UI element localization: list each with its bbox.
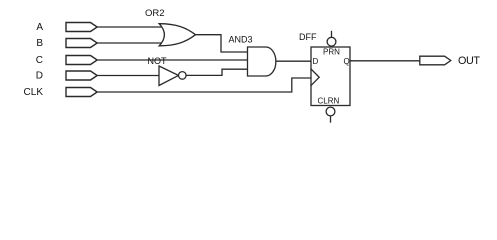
wire A to OR2	[97, 26, 164, 28]
input pin B	[66, 39, 97, 48]
svg-text:A: A	[36, 22, 43, 33]
svg-text:NOT: NOT	[148, 56, 168, 66]
svg-text:CLK: CLK	[24, 87, 44, 98]
input pin D	[66, 71, 97, 80]
and-gate U3 AND3	[248, 47, 276, 76]
svg-text:AND3: AND3	[229, 35, 253, 45]
wire D to NOT	[97, 75, 159, 77]
wire DFF Q output to OUT pin	[350, 60, 420, 62]
svg-text:D: D	[36, 71, 43, 82]
svg-text:OR2: OR2	[145, 8, 165, 19]
svg-text:OUT: OUT	[458, 55, 480, 67]
flip-flop U4 DFF body	[311, 47, 350, 106]
svg-text:CLRN: CLRN	[318, 97, 340, 106]
svg-text:C: C	[36, 55, 43, 66]
svg-text:PRN: PRN	[323, 48, 340, 57]
input pin CLK	[66, 88, 97, 97]
not-gate U2 NOT triangle	[159, 66, 179, 86]
wire OR2 output to AND3 input 1	[196, 35, 248, 52]
wire CLK to DFF clock	[97, 78, 311, 92]
output pin OUT	[420, 56, 451, 65]
flip-flop PRN stub circle	[327, 37, 336, 46]
svg-text:D: D	[313, 57, 319, 66]
input pin A	[66, 23, 97, 32]
flip-flop CLRN stub circle	[326, 107, 335, 116]
flip-flop PRN stub wire	[331, 32, 333, 38]
not-gate bubble	[179, 72, 187, 80]
wire B to OR2	[97, 42, 164, 44]
flip-flop CLRN stub wire	[330, 116, 332, 122]
svg-text:B: B	[36, 38, 43, 49]
wire NOT output to AND3 input 3	[186, 69, 247, 75]
or-gate U1 OR2	[159, 24, 195, 46]
flip-flop clock triangle	[311, 69, 319, 86]
svg-text:DFF: DFF	[299, 32, 317, 42]
input pin C	[66, 56, 97, 65]
wire AND3 output to DFF D input	[276, 60, 311, 62]
wire C to AND3	[97, 59, 247, 61]
svg-text:Q: Q	[344, 57, 350, 66]
